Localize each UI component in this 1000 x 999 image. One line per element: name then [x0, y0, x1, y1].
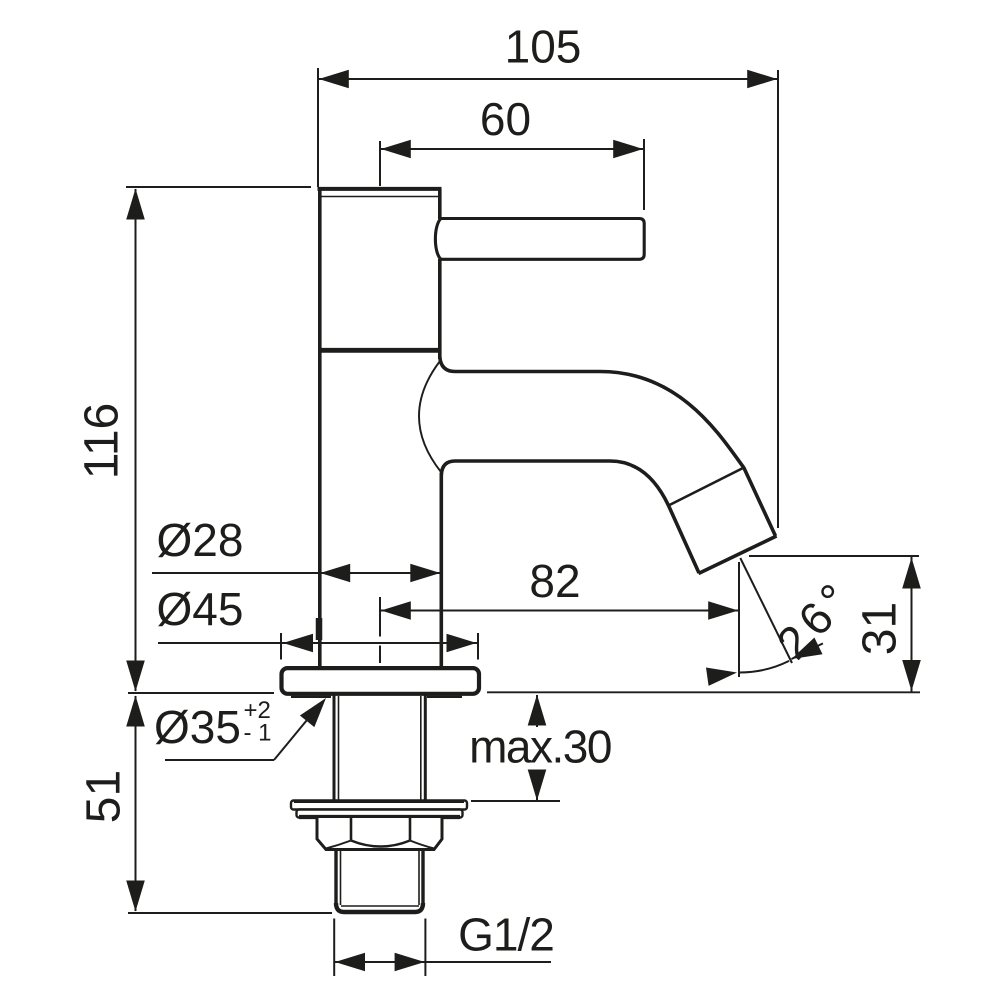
shank lower left inner	[340, 850, 342, 905]
dimension 31 line	[911, 557, 913, 692]
svg-text:max.30: max.30	[469, 721, 611, 773]
angle 26 arc	[740, 661, 790, 673]
nut facet line left	[350, 818, 353, 840]
arrow 51 down	[126, 881, 145, 912]
arrow 82 right	[708, 601, 738, 620]
arrow d28 left	[320, 564, 350, 583]
bottom reference line	[128, 912, 332, 914]
dimension 116 line	[135, 189, 137, 691]
lever handle	[435, 219, 644, 260]
washer top plate	[291, 801, 467, 810]
svg-text:Ø35: Ø35	[154, 701, 241, 753]
faucet body right wall mid	[438, 259, 442, 359]
faucet body right wall lower	[439, 473, 443, 667]
faucet body left wall thick mark	[316, 618, 323, 640]
faucet head bottom joint line	[318, 348, 441, 353]
countertop right line	[487, 691, 920, 693]
dimension 60 left extension	[379, 141, 381, 186]
arrow d28 right	[410, 564, 440, 583]
arrow 51 up	[126, 696, 145, 727]
shank upper right outer	[424, 695, 427, 801]
arrow 105 right	[747, 70, 777, 89]
arrow d35 leader	[300, 692, 333, 727]
G12 left extension	[333, 919, 335, 977]
arrow 60 left	[381, 140, 411, 159]
svg-text:116: 116	[76, 403, 129, 480]
dimension 105 line	[318, 78, 778, 80]
nut facet line right	[409, 818, 412, 840]
dimension 51 line	[135, 696, 137, 911]
dimension 60 right extension	[643, 139, 645, 210]
spout bottom outline	[441, 461, 699, 573]
arrow G12 right	[395, 953, 425, 972]
shank upper right inner	[420, 696, 422, 800]
dimension 105 left extension	[317, 68, 319, 187]
faucet body right wall upper	[438, 189, 442, 219]
angle 26 vertical line	[738, 562, 740, 677]
shank bottom chamfer thin line	[341, 905, 419, 907]
faucet body left wall	[318, 189, 322, 667]
washer lower plate bottom thick edge	[299, 815, 460, 819]
shank upper left inner	[338, 696, 340, 800]
arrow 105 left	[319, 70, 349, 89]
svg-text:Ø28: Ø28	[157, 514, 244, 566]
max30 extension line	[471, 800, 560, 802]
nut chamfer arc center	[351, 841, 410, 847]
dimension 60 line	[380, 148, 644, 150]
arrow G12 left	[335, 953, 365, 972]
flange bottom sliver left	[291, 696, 331, 698]
arrow max30 down	[528, 770, 547, 801]
dimension d45 left tick	[280, 633, 282, 660]
spout outlet end face	[699, 536, 777, 574]
dimension d45 line	[158, 642, 479, 644]
dimension 31 top extension	[749, 555, 919, 557]
arrow 26 left	[706, 663, 738, 686]
nut chamfer arc right	[410, 841, 434, 849]
d35 leader diagonal	[274, 703, 321, 760]
svg-text:- 1: - 1	[244, 720, 272, 747]
arrow 60 right	[613, 140, 643, 159]
nut outline	[317, 818, 442, 850]
svg-text:31: 31	[854, 602, 907, 655]
washer lower plate	[297, 810, 463, 818]
faucet cap top line	[318, 187, 442, 191]
washer top plate thick edge	[294, 800, 464, 803]
arrow 82 left	[381, 601, 411, 620]
G12 right extension	[424, 919, 426, 977]
svg-text:26°: 26°	[766, 569, 864, 669]
arrow 116 down	[126, 661, 145, 692]
dimension 82 line	[380, 610, 739, 612]
arrow 31 down	[902, 660, 921, 691]
shank bottom rounded edge	[336, 903, 423, 912]
neck concave curve	[419, 361, 441, 472]
shank lower right outer	[421, 850, 424, 906]
spout top outline	[440, 357, 776, 536]
dimension d28 line	[152, 572, 441, 574]
arrow d45 right	[447, 634, 477, 653]
arrow 31 up	[902, 558, 921, 589]
arrow d45 left	[283, 634, 313, 653]
arrow 26 right	[787, 637, 822, 667]
flange bottom sliver right	[427, 696, 462, 698]
max30 dim line bottom	[536, 771, 538, 800]
dimension 82 extension segment b	[379, 646, 381, 664]
arrow max30 up	[528, 695, 547, 726]
dimension d45 right tick	[477, 633, 479, 660]
svg-text:82: 82	[529, 555, 580, 607]
nut chamfer arc left	[326, 841, 351, 849]
d35 leader underline	[165, 759, 274, 761]
angle 26 slant line	[740, 558, 792, 663]
G12 dim line	[334, 961, 551, 963]
dimension 82 extension segment a	[379, 597, 381, 637]
faucet cap bottom thin line	[318, 196, 441, 198]
svg-text:105: 105	[505, 21, 582, 73]
countertop left line	[128, 692, 274, 694]
dimension 116 top extension	[126, 186, 311, 188]
aerator separation line	[669, 468, 745, 506]
svg-text:G1/2: G1/2	[458, 909, 554, 961]
base flange	[282, 668, 480, 694]
shank lower left outer	[334, 850, 337, 906]
svg-text:60: 60	[480, 93, 531, 145]
max30 dim line top	[536, 695, 538, 727]
arrow 116 up	[126, 189, 145, 220]
angle 26 arrow tail line	[792, 643, 823, 659]
svg-text:51: 51	[78, 770, 131, 823]
dimension 105 right extension	[777, 70, 779, 528]
svg-text:Ø45: Ø45	[157, 583, 244, 635]
shank lower right inner	[418, 850, 420, 905]
shank upper left outer	[333, 695, 336, 801]
